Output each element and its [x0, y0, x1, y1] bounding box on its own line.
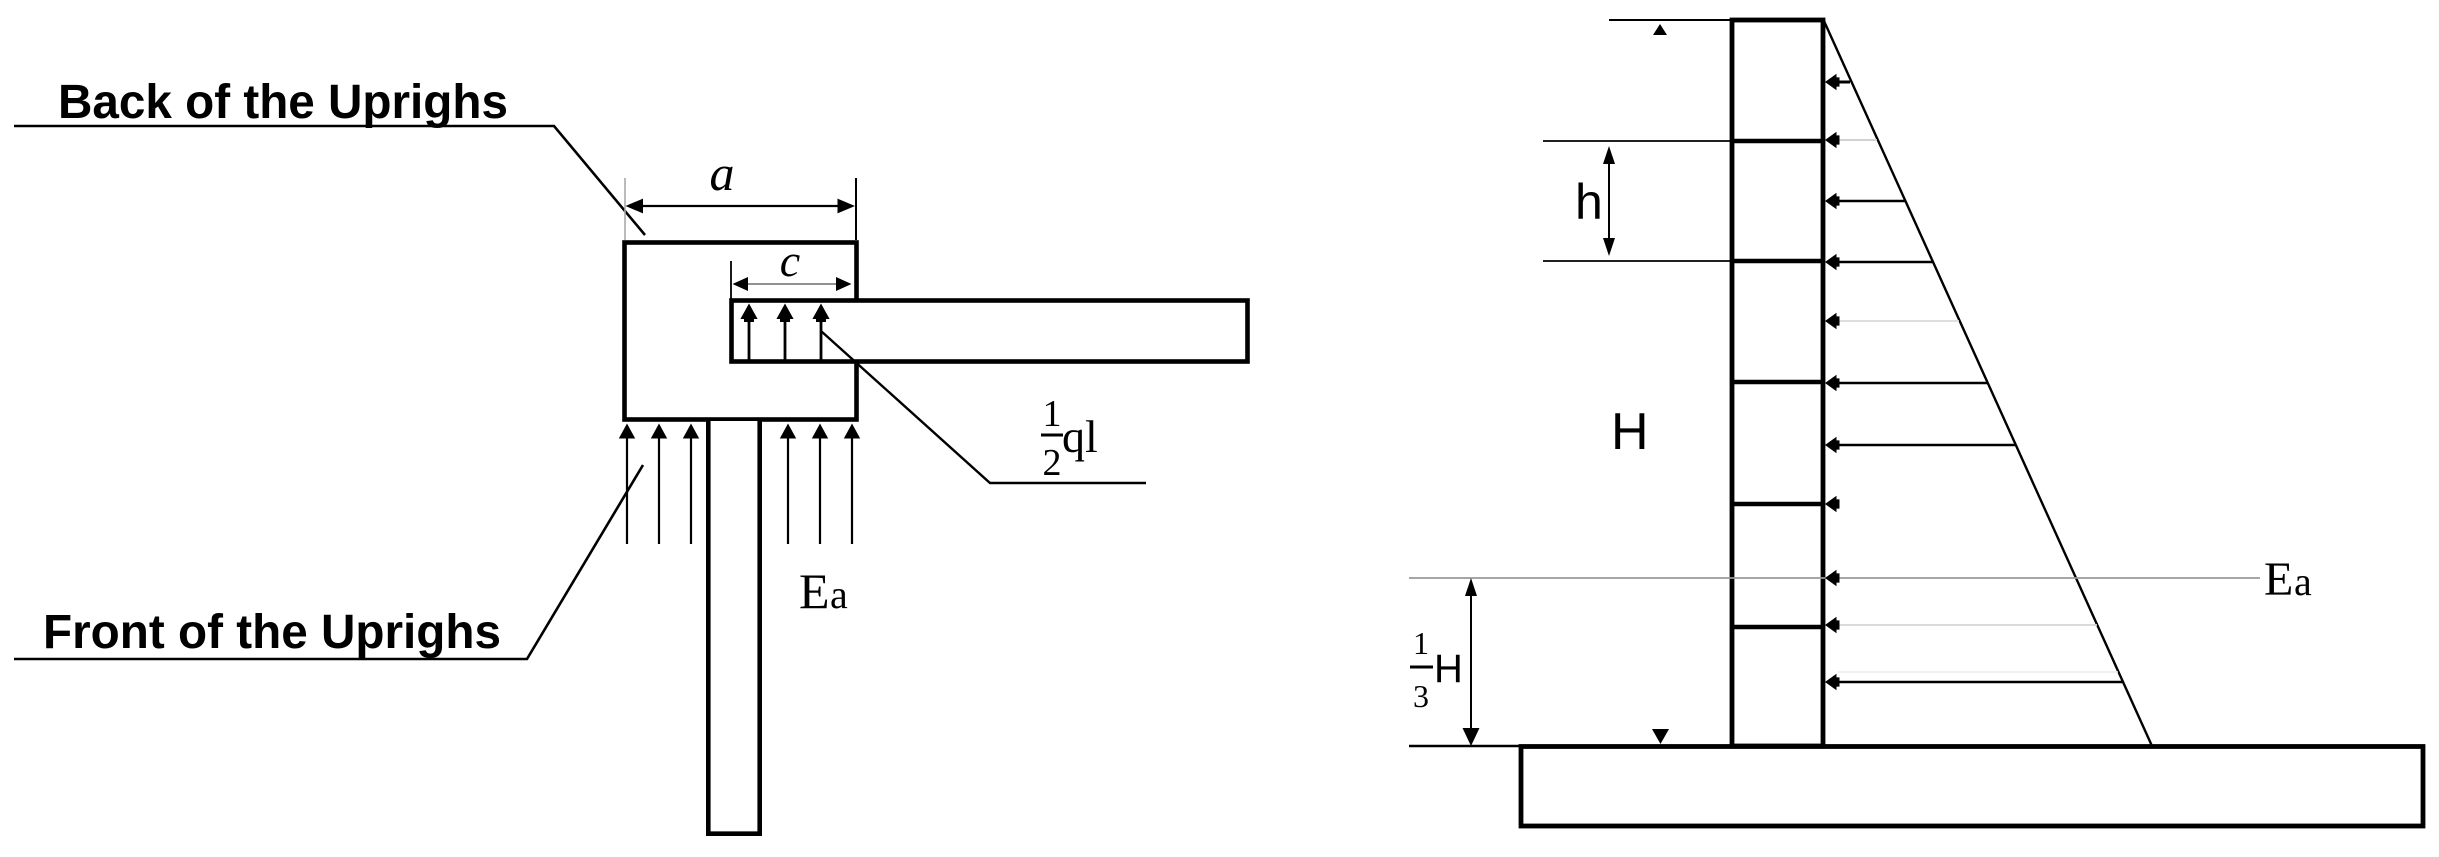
leader line: back of uprights: [14, 126, 645, 235]
svg-text:E: E: [799, 563, 830, 619]
svg-text:2: 2: [1043, 442, 1062, 484]
dimension 1/3H: top arrowhead: [1465, 578, 1477, 596]
dimension c: line: [748, 283, 838, 285]
reaction arrow 3: [690, 436, 692, 544]
label 1/2 ql: fraction bar: [1041, 434, 1063, 437]
dimension h: vertical line: [1608, 151, 1610, 251]
wall joint 2: [1730, 259, 1825, 263]
reaction arrow 5: [819, 436, 821, 544]
h upper extension line: [1543, 140, 1732, 142]
beam: [732, 301, 1248, 362]
pressure arrow y=262: [1838, 261, 1933, 263]
svg-text:Back of the Uprighs: Back of the Uprighs: [58, 76, 508, 129]
svg-text:a: a: [2294, 559, 2312, 604]
label 1/3: fraction bar: [1410, 666, 1433, 669]
load arrow 3 on c: [820, 316, 823, 360]
leader line: 1/2 ql label: [821, 331, 1146, 483]
column: [708, 421, 759, 834]
pressure arrow y=580 (head only): [1825, 570, 1840, 586]
svg-text:H: H: [1434, 647, 1463, 691]
svg-text:1: 1: [1043, 393, 1062, 435]
svg-text:Front of the Uprighs: Front of the Uprighs: [43, 606, 501, 659]
dimension c: left arrowhead: [733, 277, 749, 291]
faint mid-block line y=672: [1838, 671, 2118, 673]
cap rectangle: [625, 243, 857, 420]
svg-text:E: E: [2264, 553, 2293, 606]
dimension 1/3H: vertical line: [1470, 585, 1472, 733]
footing: [1521, 747, 2423, 827]
pressure arrow y=625: [1838, 624, 2097, 626]
pressure arrow y=321: [1838, 320, 1959, 322]
svg-text:h: h: [1575, 174, 1603, 230]
ground marker triangle top: [1653, 24, 1667, 35]
dimension h: top arrowhead: [1603, 146, 1615, 164]
Ea level line: [1409, 577, 2260, 579]
reaction arrow 4: [787, 436, 789, 544]
dimension a: line: [640, 205, 841, 207]
h lower extension line: [1543, 260, 1732, 262]
leader line: front of uprights: [14, 465, 643, 659]
pressure arrow y=504 (head only): [1825, 496, 1840, 512]
dimension a: left extension line: [624, 178, 626, 240]
svg-text:H: H: [1611, 403, 1649, 461]
svg-text:c: c: [780, 235, 800, 286]
ground marker triangle bottom: [1652, 729, 1669, 744]
wall joint 5: [1730, 625, 1825, 629]
wall joint 1: [1730, 139, 1825, 143]
svg-text:3: 3: [1413, 678, 1429, 714]
load arrow 1 on c: [748, 316, 751, 360]
reaction arrow 1: [626, 436, 628, 544]
pressure arrow y=445: [1838, 444, 2016, 446]
ground line top: [1609, 19, 1732, 21]
wall joint 4: [1730, 502, 1825, 506]
dimension 1/3H: bottom arrowhead: [1463, 728, 1480, 746]
pressure arrow y=383: [1838, 382, 1988, 384]
wall joint 3: [1730, 380, 1825, 384]
svg-text:1: 1: [1413, 625, 1429, 661]
retaining wall stem: [1732, 20, 1823, 746]
svg-text:a: a: [710, 145, 735, 201]
dimension c: left extension line: [730, 261, 732, 299]
reaction arrow 6: [851, 436, 853, 544]
pressure arrow y=140: [1838, 139, 1877, 141]
pressure arrow y=201: [1838, 200, 1905, 202]
dimension h: bottom arrowhead: [1603, 238, 1615, 256]
reaction arrow 2: [658, 436, 660, 544]
pressure arrow y=82: [1837, 81, 1850, 84]
svg-text:a: a: [830, 572, 848, 617]
dimension a: left arrowhead: [626, 199, 644, 214]
svg-text:ql: ql: [1062, 411, 1098, 462]
dimension a: right arrowhead: [838, 199, 856, 214]
dimension c: right arrowhead: [836, 277, 852, 291]
pressure arrow y=682: [1838, 681, 2123, 683]
ground line bottom left: [1409, 745, 1519, 747]
dimension a: right extension line: [855, 178, 857, 240]
pressure hypotenuse: [1824, 21, 2152, 746]
load arrow 2 on c: [784, 316, 787, 360]
